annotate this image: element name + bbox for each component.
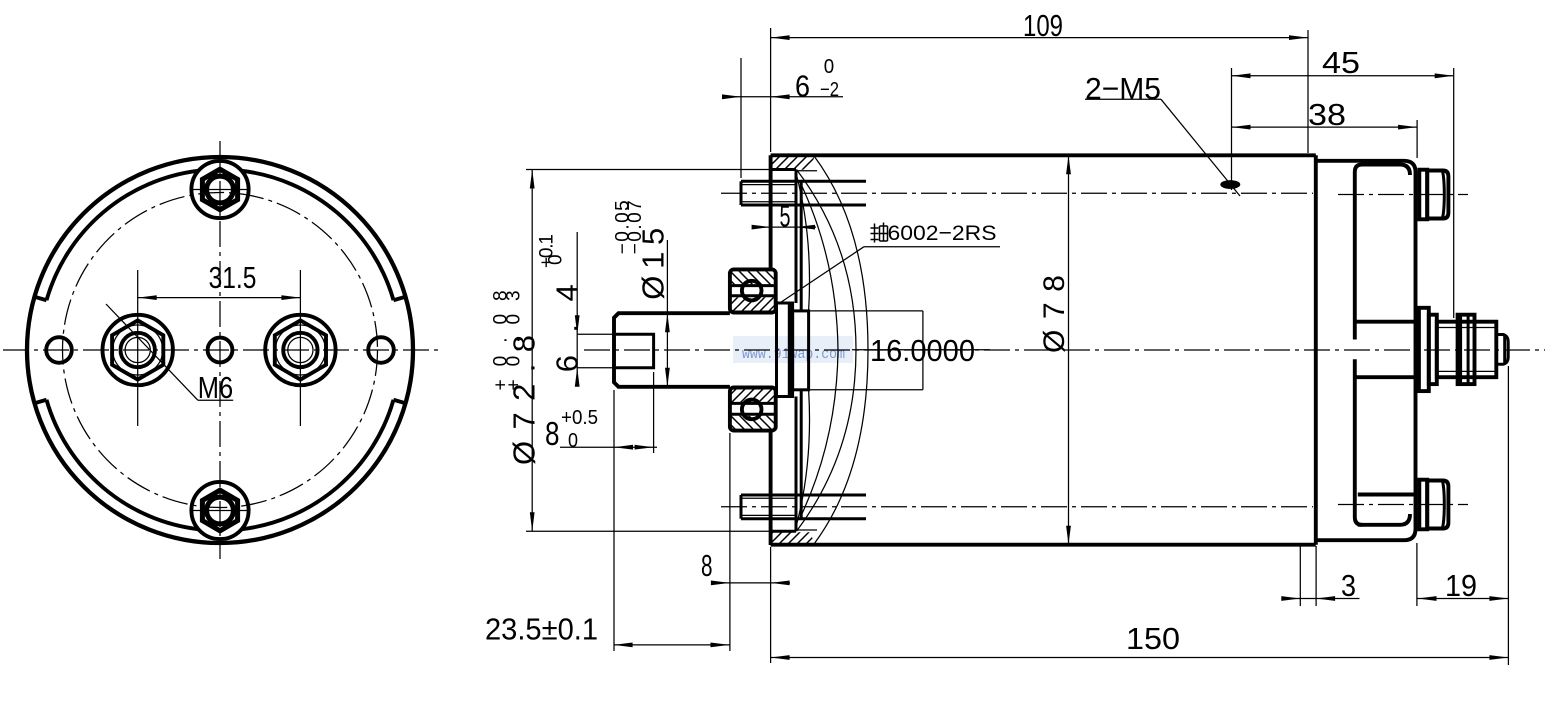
bearing 6002-2RS label leader bbox=[864, 246, 1000, 248]
top tie-bolt stud bbox=[741, 180, 866, 183]
dim 38 bbox=[1232, 126, 1418, 128]
svg-text:2−M5: 2−M5 bbox=[1085, 71, 1161, 106]
bearing 6002 lower section bbox=[732, 389, 775, 402]
ext cap face down bbox=[1416, 543, 1418, 606]
bell curve 2 bbox=[797, 170, 857, 532]
bottom nut pocket top line bbox=[1358, 493, 1416, 497]
flange left face upper bbox=[769, 155, 773, 269]
left M6 terminal nut bbox=[103, 315, 173, 385]
rim step at 16 deg bbox=[394, 297, 406, 300]
cap inner top surface bbox=[1362, 165, 1410, 176]
shaft Ø15 bbox=[614, 313, 730, 387]
flange band bottom edge bbox=[771, 168, 796, 171]
end cap outline bbox=[1316, 161, 1416, 540]
2-M5 label leader bbox=[1085, 98, 1161, 100]
dim Ø72.8 +0.08/+0.03 bbox=[531, 170, 533, 532]
center hole bbox=[208, 338, 233, 363]
ext shaft end down bbox=[613, 390, 615, 651]
dim 23.5 +-0.1 bbox=[614, 644, 730, 646]
dim 150 bbox=[771, 657, 1509, 659]
bell curve 3 bbox=[800, 182, 838, 518]
bolt circle (dash-dot) bbox=[63, 193, 378, 508]
svg-text:31.5: 31.5 bbox=[209, 260, 257, 295]
dim 31.5 bbox=[138, 297, 301, 299]
shaft flat slot bbox=[616, 334, 654, 367]
2-M5 tapped hole (top of housing) bbox=[1220, 180, 1240, 189]
dim 5 bbox=[752, 226, 816, 228]
watermark www.91wap.com bbox=[733, 336, 853, 363]
label M6 leader bbox=[106, 304, 198, 400]
rim inner arc upper-right bbox=[242, 171, 394, 300]
svg-text:0: 0 bbox=[546, 254, 567, 265]
body right edge bbox=[1314, 155, 1318, 544]
16.0000 bracket bbox=[809, 310, 923, 312]
rim inner arc upper-left bbox=[47, 171, 199, 300]
end cap inner wall bbox=[1355, 165, 1362, 525]
motor housing outer circle bbox=[27, 157, 413, 543]
svg-text:6.4: 6.4 bbox=[550, 284, 585, 372]
svg-text:150: 150 bbox=[1126, 621, 1180, 656]
ext seam down bbox=[1299, 546, 1301, 606]
seal collar bbox=[777, 303, 793, 397]
top tie-bolt centerline bbox=[721, 192, 1313, 194]
svg-text:+0.5: +0.5 bbox=[561, 407, 598, 429]
ext slot end down bbox=[653, 372, 655, 453]
rim inner arc lower-right bbox=[242, 400, 394, 529]
svg-text:6: 6 bbox=[795, 69, 810, 104]
svg-text:45: 45 bbox=[1322, 45, 1360, 80]
dim 109 bbox=[771, 37, 1308, 39]
rim inner arc lower-left bbox=[47, 400, 199, 529]
left small hole bbox=[46, 337, 72, 363]
ext body end down bbox=[1315, 546, 1317, 606]
svg-text:−2: −2 bbox=[820, 79, 839, 101]
ext 38 right bbox=[1416, 120, 1418, 158]
ext 45/38 left at M5 hole bbox=[1231, 68, 1233, 190]
svg-text:0: 0 bbox=[824, 56, 834, 78]
center terminal pocket bottom bbox=[1354, 375, 1417, 379]
svg-text:Ø78: Ø78 bbox=[1038, 275, 1071, 353]
ext O72.8 top bbox=[526, 169, 771, 171]
top through-bolt head bbox=[191, 161, 248, 218]
svg-text:8: 8 bbox=[545, 415, 560, 452]
right M6 terminal nut bbox=[265, 315, 335, 385]
ext flange face down bbox=[770, 547, 772, 663]
svg-text:M6: M6 bbox=[198, 370, 233, 405]
right small hole bbox=[368, 337, 394, 363]
center terminal stud washers bbox=[1419, 308, 1429, 391]
svg-text:5: 5 bbox=[780, 199, 791, 234]
dim 3 bbox=[1283, 598, 1360, 600]
flange right face lower bbox=[795, 397, 798, 532]
svg-text:8: 8 bbox=[701, 548, 713, 583]
svg-text:19: 19 bbox=[1445, 568, 1477, 603]
svg-text:109: 109 bbox=[1023, 8, 1063, 43]
top terminal centerline bbox=[1338, 194, 1468, 196]
dim Ø15 -0.05/-0.07 bbox=[666, 240, 668, 387]
left nut vertical centerline / ext bbox=[137, 270, 139, 426]
svg-text:0: 0 bbox=[568, 430, 578, 452]
dim 19 bbox=[1418, 598, 1509, 600]
top terminal nut bbox=[1419, 170, 1427, 220]
Ø16 journal bbox=[793, 311, 809, 390]
dim 8 bearing protrusion bbox=[712, 582, 790, 584]
ext 6.4 bottom bbox=[577, 367, 616, 369]
cap inner bottom surface bbox=[1358, 514, 1410, 525]
bottom tie-bolt centerline bbox=[721, 506, 1313, 508]
left view horizontal centerline bbox=[3, 349, 441, 351]
center terminal pocket top bbox=[1354, 320, 1417, 324]
bell curve outer bbox=[814, 155, 869, 544]
rim step at 164 deg bbox=[35, 297, 47, 300]
center terminal tip bbox=[1496, 335, 1508, 365]
svg-text:16.0000: 16.0000 bbox=[870, 333, 975, 368]
flange hatch band top bbox=[771, 157, 814, 170]
flange left face lower bbox=[769, 431, 773, 545]
top bolt horizontal tick bbox=[191, 189, 249, 191]
ext O72.8 bottom bbox=[526, 530, 771, 532]
dim 6 0/-2 bbox=[728, 96, 843, 98]
rim step at 344 deg bbox=[394, 400, 406, 403]
dim 8 +0.5/0 bbox=[560, 446, 657, 448]
ext 6 left bbox=[740, 58, 742, 178]
bottom through-bolt head bbox=[191, 482, 248, 539]
flange band top edge (bottom) bbox=[771, 530, 796, 533]
bearing 6002 upper section bbox=[732, 271, 775, 284]
svg-text:38: 38 bbox=[1308, 97, 1346, 132]
flange hatch band bottom bbox=[771, 532, 814, 543]
center terminal threaded shank bbox=[1437, 322, 1497, 378]
center terminal nut pack bbox=[1458, 315, 1475, 384]
body front wall lower bbox=[800, 390, 803, 519]
dim 6.4 +0.1/0 bbox=[576, 232, 578, 384]
ext 109 left / flange face top bbox=[770, 28, 772, 152]
rim step at 196 deg bbox=[35, 400, 47, 403]
dim Ø78 bbox=[1068, 155, 1070, 544]
ext 6.4 top bbox=[577, 333, 616, 335]
bottom tie-bolt stud bbox=[741, 494, 866, 497]
bottom terminal centerline bbox=[1338, 504, 1468, 506]
ext stud tip down bbox=[1507, 366, 1509, 665]
svg-text:23.5±0.1: 23.5±0.1 bbox=[485, 612, 598, 647]
body bottom line bbox=[771, 543, 1316, 547]
svg-text:3: 3 bbox=[1341, 568, 1356, 603]
body top line bbox=[771, 153, 1316, 157]
dim 45 bbox=[1232, 75, 1454, 77]
body front wall upper bbox=[800, 181, 803, 311]
ext bearing face down bbox=[729, 433, 731, 651]
bottom terminal nut bbox=[1419, 480, 1427, 530]
bell curve 4 upper bbox=[797, 175, 810, 311]
fake CJK 轴承 glyphs bbox=[871, 223, 888, 243]
ext 109 right bbox=[1307, 30, 1309, 153]
ext 45 right bbox=[1453, 68, 1455, 318]
flange right face upper bbox=[795, 170, 798, 304]
bell curve 4 lower bbox=[797, 390, 810, 525]
bottom bolt horizontal tick bbox=[191, 510, 249, 512]
right nut vertical centerline / ext bbox=[299, 270, 301, 426]
svg-text:6002−2RS: 6002−2RS bbox=[888, 221, 997, 245]
left view vertical centerline bbox=[219, 141, 221, 559]
main axis centerline bbox=[584, 349, 1545, 351]
svg-text:−0.07: −0.07 bbox=[625, 200, 646, 254]
